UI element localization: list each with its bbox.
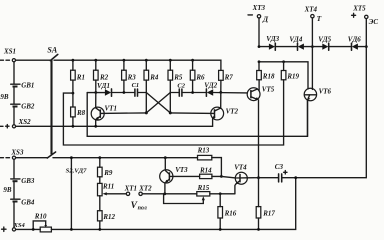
battery GB3 xyxy=(11,159,35,185)
resistor R9 xyxy=(98,156,113,183)
svg-text:T: T xyxy=(317,14,322,23)
transistor VT6 xyxy=(304,87,331,136)
svg-text:VT5: VT5 xyxy=(262,85,275,93)
diode VD1 xyxy=(97,82,135,96)
battery GB2 xyxy=(11,87,35,125)
connector XS4 xyxy=(2,222,26,231)
svg-text:XT2: XT2 xyxy=(138,185,152,193)
svg-text:GB3: GB3 xyxy=(21,177,35,185)
resistor R12 xyxy=(98,196,116,231)
svg-text:R16: R16 xyxy=(224,210,237,218)
svg-text:R9: R9 xyxy=(103,169,113,177)
resistor R4 xyxy=(144,60,159,92)
transistor VT3 xyxy=(160,156,200,194)
wire diode row xyxy=(258,45,368,48)
connector XT4 xyxy=(304,6,322,90)
svg-text:R15: R15 xyxy=(197,184,210,192)
wire auxiliary S2-VD7 branch xyxy=(66,156,88,231)
svg-text:XS4: XS4 xyxy=(13,222,26,229)
wire XT2 to VT3 emitter node xyxy=(142,192,197,195)
wire VT2 base xyxy=(170,112,214,115)
svg-text:R17: R17 xyxy=(262,210,275,218)
svg-text:R3: R3 xyxy=(127,73,137,81)
svg-text:VД6: VД6 xyxy=(348,36,361,44)
resistor R10 xyxy=(32,212,52,232)
svg-text:R12: R12 xyxy=(102,213,115,221)
svg-text:VД1: VД1 xyxy=(97,82,110,90)
transistor VT2 xyxy=(211,92,239,126)
diode VD3 xyxy=(266,35,297,50)
svg-text:VД2: VД2 xyxy=(204,81,217,89)
svg-text:V: V xyxy=(131,201,138,211)
capacitor C1 xyxy=(132,82,147,96)
svg-text:R2: R2 xyxy=(99,73,109,81)
node R3 tap xyxy=(123,91,126,94)
resistor R13 xyxy=(197,146,222,176)
wire XS3 to switch xyxy=(16,157,48,159)
wire base rail right xyxy=(258,60,308,89)
svg-text:C2: C2 xyxy=(177,83,185,90)
svg-text:GB1: GB1 xyxy=(21,82,34,90)
resistor R8 xyxy=(71,93,86,128)
switch SA top blade xyxy=(50,54,58,60)
svg-text:пол: пол xyxy=(138,205,147,211)
switch SA linkage bar xyxy=(50,60,52,155)
battery GB4 xyxy=(11,182,35,228)
diode VD6 xyxy=(348,36,367,51)
node R6 tap xyxy=(191,91,194,94)
svg-text:XT5: XT5 xyxy=(352,5,366,13)
svg-text:R6: R6 xyxy=(195,73,205,81)
resistor R2 xyxy=(94,60,109,92)
svg-text:VД4: VД4 xyxy=(289,36,302,44)
wire lower rail after switch xyxy=(53,157,198,159)
svg-text:R19: R19 xyxy=(286,73,299,81)
svg-text:C3: C3 xyxy=(275,163,284,171)
svg-text:Д: Д xyxy=(262,15,269,24)
diode VD5 xyxy=(318,36,351,51)
svg-text:VT3: VT3 xyxy=(175,166,188,174)
svg-text:R7: R7 xyxy=(224,73,234,81)
svg-text:9В: 9В xyxy=(3,186,12,194)
svg-text:XT3: XT3 xyxy=(252,4,266,12)
svg-text:R18: R18 xyxy=(262,73,275,81)
connector XT5 xyxy=(282,5,378,178)
battery GB1 xyxy=(11,62,35,90)
svg-text:R4: R4 xyxy=(149,73,159,81)
svg-text:XS1: XS1 xyxy=(3,48,16,56)
svg-text:VД3: VД3 xyxy=(266,35,279,43)
resistor R19 xyxy=(281,62,299,81)
diode VD2 xyxy=(204,81,247,96)
resistor R3 xyxy=(122,60,137,92)
svg-text:VД5: VД5 xyxy=(318,36,331,44)
wire feedback B line xyxy=(87,93,307,137)
svg-text:XS2: XS2 xyxy=(18,118,32,126)
diode VD4 xyxy=(289,36,322,51)
svg-text:VT2: VT2 xyxy=(226,107,239,115)
switch SA bottom blade xyxy=(47,152,55,158)
connector XS2 xyxy=(0,118,31,128)
svg-text:XT4: XT4 xyxy=(304,6,318,14)
resistor R6 xyxy=(190,60,205,92)
resistor R7 xyxy=(219,70,234,92)
svg-text:R8: R8 xyxy=(76,109,86,117)
top supply bus xyxy=(54,60,221,70)
svg-text:C1: C1 xyxy=(132,82,140,89)
wire R15 to VT4 emitter xyxy=(210,192,235,195)
svg-text:VT1: VT1 xyxy=(105,105,117,113)
capacitor C2 xyxy=(170,83,206,97)
svg-text:GB2: GB2 xyxy=(21,103,35,111)
transistor VT1 xyxy=(91,93,117,128)
svg-text:XS3: XS3 xyxy=(10,149,24,157)
resistor R18 xyxy=(257,62,275,91)
label V pol xyxy=(131,201,147,212)
resistor R17 xyxy=(256,178,275,231)
node top bus taps xyxy=(72,59,195,62)
svg-text:R10: R10 xyxy=(34,212,47,220)
connector XT2 xyxy=(138,185,152,196)
resistor R1 xyxy=(71,60,85,93)
connector XT3 xyxy=(248,4,269,47)
svg-text:VT4: VT4 xyxy=(234,164,247,172)
transistor VT5 xyxy=(247,85,275,177)
wire emitter bus from XS2 xyxy=(16,125,213,127)
svg-text:ЭС: ЭС xyxy=(369,18,379,26)
svg-text:9В: 9В xyxy=(0,93,9,101)
wire VT5 collector C3 node xyxy=(257,176,278,179)
connector XT1 xyxy=(124,185,137,196)
svg-text:S2,VД7: S2,VД7 xyxy=(66,168,88,175)
svg-text:R13: R13 xyxy=(197,146,210,154)
resistor R16 xyxy=(218,194,237,231)
potentiometer R11 xyxy=(98,182,127,195)
wire VT1 base xyxy=(100,112,146,115)
svg-text:R11: R11 xyxy=(102,182,114,190)
svg-text:GB4: GB4 xyxy=(21,199,35,207)
connector XS1 xyxy=(0,48,16,62)
connector XS3 xyxy=(0,149,24,160)
svg-text:R1: R1 xyxy=(76,73,85,81)
svg-text:R5: R5 xyxy=(173,73,183,81)
svg-text:XT1: XT1 xyxy=(124,185,137,193)
potentiometer R15 xyxy=(164,184,210,203)
svg-text:SA: SA xyxy=(47,45,57,54)
node R1-R8 junction and feedback C line xyxy=(63,80,283,145)
node VT2 collector tap xyxy=(219,91,222,94)
capacitor C3 xyxy=(275,163,287,182)
wire XS1 to SA xyxy=(16,59,51,61)
svg-text:VT6: VT6 xyxy=(319,87,332,95)
bottom bus xyxy=(16,228,41,230)
resistor R5 xyxy=(168,60,183,92)
multivibrator cross coupling xyxy=(145,93,172,115)
transistor VT4 xyxy=(234,164,258,194)
wire collector row left xyxy=(87,92,105,94)
node bottom right riser xyxy=(294,176,297,179)
resistor R14 xyxy=(199,167,235,179)
svg-text:R14: R14 xyxy=(199,167,212,175)
